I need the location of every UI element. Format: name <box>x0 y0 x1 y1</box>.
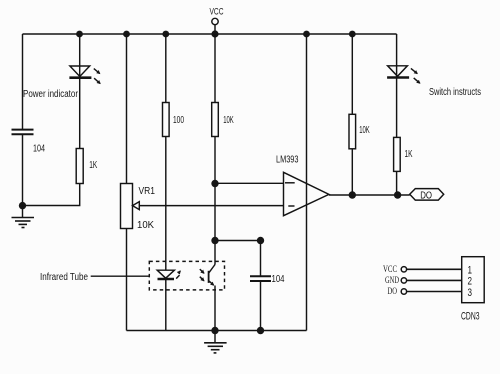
VCC power symbol <box>210 7 224 35</box>
svg-text:Infrared Tube: Infrared Tube <box>40 272 88 283</box>
wire: bottom rail <box>127 330 307 332</box>
svg-text:1K: 1K <box>89 160 97 171</box>
wire: rail to R 100 <box>165 34 167 103</box>
svg-text:VCC: VCC <box>210 7 224 18</box>
wire: x306 drop from rail through to bottom rail <box>306 34 308 331</box>
pin 2 GND lead <box>385 276 462 286</box>
node: rail junction at VCC entry <box>211 30 218 37</box>
connector J1 CDN3 <box>461 257 484 323</box>
wire: rail to power LED <box>79 34 81 78</box>
node: rail junction at R 100 branch <box>162 31 169 38</box>
infrared tube dashed enclosure <box>149 261 224 290</box>
pin 1 VCC lead <box>383 265 462 275</box>
svg-text:104: 104 <box>33 144 45 155</box>
port DO output flag <box>410 189 444 202</box>
svg-text:Switch instructs: Switch instructs <box>429 87 481 98</box>
wire: right 10K to output <box>351 149 353 195</box>
node: rail junction at VR1 branch <box>123 31 130 38</box>
svg-text:DO: DO <box>388 287 398 297</box>
wire: VR1 bottom to bottom rail <box>126 229 128 331</box>
label: Infrared Tube with leader <box>40 272 149 283</box>
svg-text:VCC: VCC <box>383 265 397 275</box>
op-amp U1 LM393 <box>276 155 329 216</box>
wire: + input to op-amp <box>215 182 284 184</box>
svg-text:1: 1 <box>468 264 473 276</box>
wire: rail right end down to switch LED <box>396 34 398 78</box>
svg-text:104: 104 <box>272 274 285 285</box>
wire: ground node to 1K bottom <box>23 184 80 206</box>
ground symbol center <box>204 331 227 353</box>
wire: link to bottom capacitor <box>215 240 261 242</box>
svg-text:1K: 1K <box>405 149 413 160</box>
wire: left rail down to filter cap <box>22 34 24 129</box>
resistor R1 1K (left) <box>76 149 97 184</box>
svg-text:2: 2 <box>468 276 473 288</box>
svg-text:10K: 10K <box>137 220 154 231</box>
node: output junction with right 10K <box>349 191 356 198</box>
ground symbol left <box>12 206 35 228</box>
wire: power LED cathode down to R 1K <box>79 78 81 149</box>
wire: rail to R 10K (mid) <box>214 34 216 103</box>
capacitor C1 104 (left filter cap) <box>12 130 46 155</box>
potentiometer VR1 10K <box>121 184 156 232</box>
svg-text:GND: GND <box>385 276 399 286</box>
node: rail junction at x306 drop <box>303 31 310 38</box>
node: bottom junction at emitter <box>211 327 218 334</box>
node: op-amp + input junction <box>211 180 218 187</box>
node: bottom junction at cap <box>257 327 264 334</box>
node: rail junction at right 10K branch <box>349 31 356 38</box>
wire: emitter down to bottom rail <box>214 286 216 331</box>
LED D3 infrared emitter <box>157 270 180 279</box>
svg-text:DO: DO <box>420 191 432 202</box>
svg-text:CDN3: CDN3 <box>461 310 480 322</box>
pin 3 DO lead <box>388 287 462 297</box>
node: ground junction left <box>19 202 26 209</box>
wire: switch LED cathode to right 1K <box>396 78 398 138</box>
wire: rail to right 10K <box>351 34 353 114</box>
node: output junction with right 1K <box>394 191 401 198</box>
resistor R5 1K (right) <box>394 137 413 171</box>
phototransistor Q1 <box>200 265 215 286</box>
LED D1 power indicator <box>69 66 100 84</box>
wire: R 100 down to IR LED <box>165 137 167 271</box>
svg-text:Power indicator: Power indicator <box>23 89 79 100</box>
wire: op-amp output line <box>329 194 410 196</box>
svg-text:10K: 10K <box>223 115 234 126</box>
svg-text:LM393: LM393 <box>276 155 299 166</box>
wire: cap bottom to ground node <box>22 135 24 206</box>
resistor R3 10K (mid) <box>212 103 234 137</box>
wire: collector up to link node <box>214 241 216 265</box>
svg-text:3: 3 <box>468 287 473 299</box>
svg-text:VR1: VR1 <box>139 186 156 197</box>
node: rail junction at power LED branch <box>76 31 83 38</box>
svg-text:10K: 10K <box>359 125 370 136</box>
resistor R2 100 <box>163 103 185 137</box>
svg-text:100: 100 <box>173 115 184 126</box>
wire: IR LED cathode to bottom rail <box>165 279 167 331</box>
wire: VR1 wiper to op-amp inverting input <box>139 205 283 207</box>
wire: top VCC rail <box>23 33 397 35</box>
LED D2 switch indicator <box>387 66 420 83</box>
node: collector / cap link junction <box>211 237 218 244</box>
wire: R 10K down to op-amp + node <box>214 137 216 241</box>
wire: right 1K to output <box>396 171 398 195</box>
node: cap top link end <box>257 237 264 244</box>
wire: VR1 branch from rail <box>126 34 128 184</box>
resistor R4 10K (right) <box>349 114 370 149</box>
capacitor C2 104 (bottom) <box>250 241 285 331</box>
